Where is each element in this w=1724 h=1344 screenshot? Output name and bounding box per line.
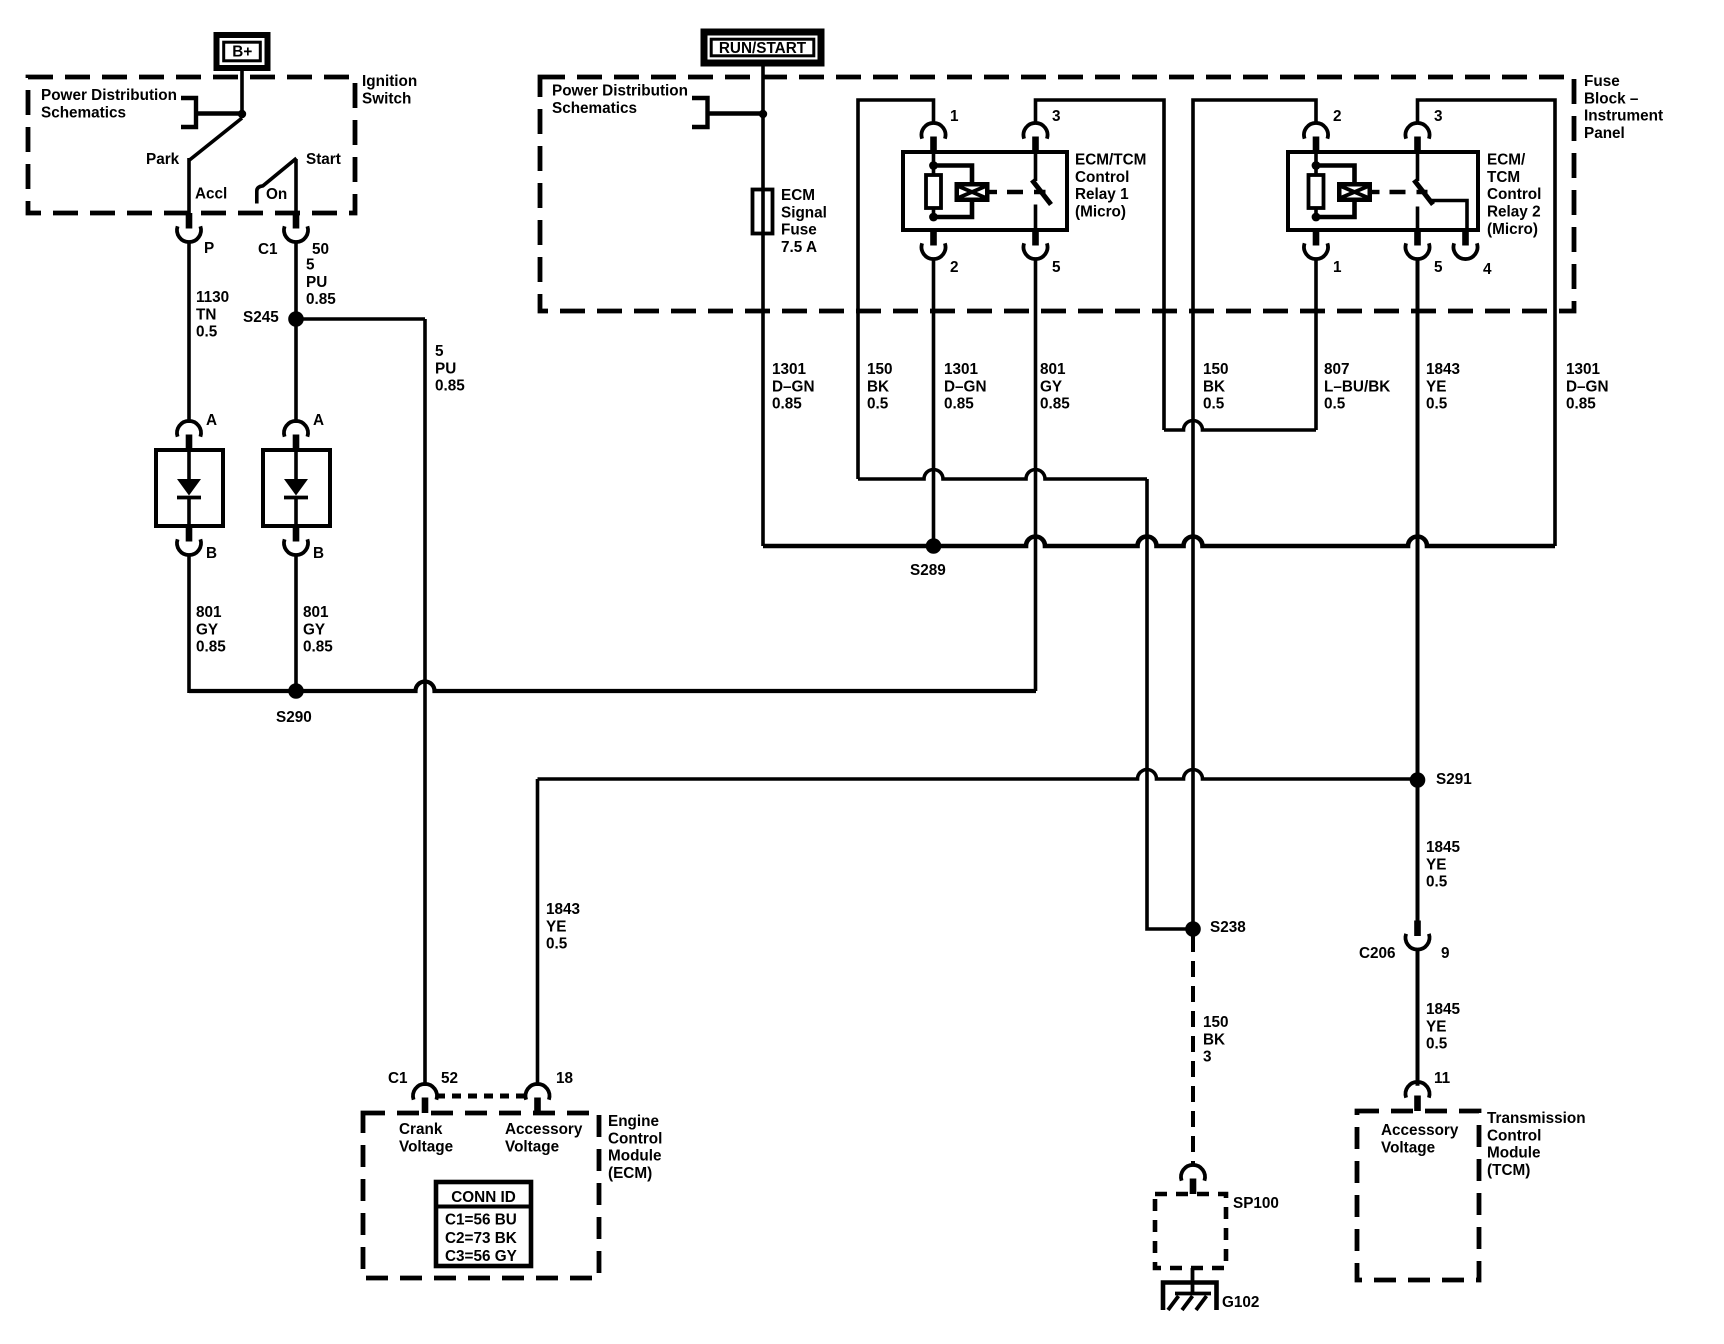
- svg-text:Instrument: Instrument: [1584, 108, 1663, 125]
- svg-text:0.85: 0.85: [303, 639, 333, 656]
- svg-text:Park: Park: [146, 151, 180, 168]
- svg-text:Ignition: Ignition: [362, 73, 417, 90]
- connector ECM C1 pin 52: [422, 1098, 429, 1114]
- svg-text:1845: 1845: [1426, 1001, 1461, 1018]
- svg-text:B: B: [313, 545, 324, 562]
- splice S291: [1410, 772, 1426, 788]
- svg-text:0.85: 0.85: [772, 396, 802, 413]
- connector C206 pin 9: [1414, 921, 1421, 937]
- wire 150 BK (relay2 pin2 to S238): [1193, 100, 1316, 929]
- relay1 pin 5 connector: [1032, 230, 1039, 246]
- ignition switch blade Park: [190, 118, 243, 160]
- svg-text:1845: 1845: [1426, 839, 1461, 856]
- svg-text:S290: S290: [276, 709, 312, 726]
- svg-text:1301: 1301: [944, 361, 979, 378]
- svg-text:2: 2: [950, 259, 959, 276]
- svg-text:SP100: SP100: [1233, 1195, 1279, 1212]
- svg-text:3: 3: [1052, 108, 1061, 125]
- svg-text:Module: Module: [1487, 1145, 1541, 1162]
- RUN/START terminal box: [704, 32, 821, 63]
- splice S290: [288, 683, 304, 699]
- svg-text:Accessory: Accessory: [505, 1121, 583, 1138]
- svg-text:C206: C206: [1359, 945, 1396, 962]
- svg-text:4: 4: [1483, 261, 1492, 278]
- svg-text:(Micro): (Micro): [1075, 204, 1126, 221]
- off-page bracket (ignition): [181, 98, 196, 127]
- relay U1 ECM/TCM Control Relay 1 (Micro): [903, 152, 1067, 230]
- svg-text:3: 3: [1434, 108, 1443, 125]
- svg-text:Voltage: Voltage: [399, 1138, 453, 1155]
- svg-text:ECM/: ECM/: [1487, 152, 1526, 169]
- wire B+ to switch: [240, 68, 244, 118]
- svg-text:Relay 1: Relay 1: [1075, 186, 1129, 203]
- wire RUN/START to fuse: [761, 64, 765, 546]
- svg-text:5: 5: [306, 257, 315, 274]
- svg-text:ECM: ECM: [781, 187, 815, 204]
- wire 801 GY 0.85 (right diode to S290): [294, 555, 298, 691]
- svg-text:Accessory: Accessory: [1381, 1122, 1459, 1139]
- svg-text:801: 801: [303, 604, 329, 621]
- svg-text:B+: B+: [232, 44, 252, 61]
- svg-text:GY: GY: [1040, 378, 1062, 395]
- svg-text:Voltage: Voltage: [505, 1138, 559, 1155]
- relay1 pin 3 connector: [1032, 137, 1039, 153]
- junction dot (B+ feed): [238, 110, 246, 118]
- svg-text:1843: 1843: [1426, 361, 1460, 378]
- svg-text:7.5 A: 7.5 A: [781, 239, 817, 256]
- SP100 dashed box: [1155, 1194, 1226, 1268]
- svg-text:Signal: Signal: [781, 204, 827, 221]
- svg-text:801: 801: [1040, 361, 1066, 378]
- svg-text:Module: Module: [608, 1148, 662, 1165]
- relay2 pin 2 connector: [1313, 137, 1320, 153]
- ignition switch dashed box: [28, 77, 355, 213]
- svg-text:52: 52: [441, 1070, 458, 1087]
- svg-text:Power Distribution: Power Distribution: [552, 83, 688, 100]
- wire 150 BK cross strap: [858, 470, 1147, 479]
- svg-text:GY: GY: [196, 621, 218, 638]
- CONN ID table: [436, 1182, 531, 1266]
- relay2 pin 5 connector: [1414, 230, 1421, 246]
- wire S290 trunk: [189, 682, 1036, 692]
- connector B (right diode): [293, 526, 300, 542]
- svg-text:D–GN: D–GN: [944, 378, 987, 395]
- svg-text:Accl: Accl: [195, 186, 227, 203]
- svg-text:Block –: Block –: [1584, 90, 1639, 107]
- svg-text:0.85: 0.85: [944, 396, 974, 413]
- svg-text:Control: Control: [1487, 1127, 1541, 1144]
- svg-text:150: 150: [1203, 361, 1229, 378]
- relay U2 ECM/TCM Control Relay 2 (Micro): [1288, 152, 1478, 230]
- connector at SP100: [1190, 1179, 1197, 1195]
- svg-text:CONN ID: CONN ID: [451, 1189, 516, 1206]
- relay1 pin 2 connector: [930, 230, 937, 246]
- svg-text:(ECM): (ECM): [608, 1165, 652, 1182]
- svg-text:5: 5: [1434, 259, 1443, 276]
- svg-text:Power Distribution: Power Distribution: [41, 87, 177, 104]
- svg-text:5: 5: [1052, 259, 1061, 276]
- svg-text:3: 3: [1203, 1049, 1212, 1066]
- svg-text:Relay 2: Relay 2: [1487, 204, 1541, 221]
- svg-text:(TCM): (TCM): [1487, 1162, 1530, 1179]
- svg-text:YE: YE: [1426, 856, 1446, 873]
- splice S245: [288, 311, 304, 327]
- connector ECM pin 18: [534, 1098, 541, 1114]
- svg-text:S238: S238: [1210, 919, 1246, 936]
- wire 150 BK to S238: [1147, 479, 1193, 929]
- svg-text:0.5: 0.5: [867, 396, 889, 413]
- svg-text:1843: 1843: [546, 901, 580, 918]
- svg-text:D–GN: D–GN: [772, 378, 815, 395]
- On contact curve: [257, 158, 297, 203]
- svg-text:1130: 1130: [196, 289, 229, 306]
- diode module box (right): [263, 450, 330, 526]
- svg-text:1301: 1301: [1566, 361, 1601, 378]
- svg-text:BK: BK: [1203, 1031, 1225, 1048]
- wire 801 GY (relay1 pin5 to S290): [1034, 259, 1038, 691]
- wire 1301 D-GN (relay1 pin2 to S289): [932, 259, 936, 546]
- svg-text:Control: Control: [1487, 186, 1541, 203]
- svg-text:1301: 1301: [772, 361, 807, 378]
- svg-text:0.85: 0.85: [1566, 396, 1596, 413]
- svg-text:ECM/TCM: ECM/TCM: [1075, 152, 1146, 169]
- svg-text:1: 1: [1333, 259, 1342, 276]
- fuse ECM Signal Fuse 7.5A: [753, 190, 773, 234]
- off-page bracket (fuse block): [692, 98, 708, 127]
- svg-text:TN: TN: [196, 306, 216, 323]
- wire Start contact: [294, 159, 298, 213]
- svg-text:S245: S245: [243, 309, 279, 326]
- battery feed terminal B+ box: [217, 35, 268, 68]
- svg-text:YE: YE: [546, 918, 566, 935]
- svg-text:Schematics: Schematics: [552, 100, 637, 117]
- connector P (ignition park feed): [186, 213, 193, 229]
- connector C1 pin 50: [293, 213, 300, 229]
- svg-text:Control: Control: [608, 1130, 662, 1147]
- svg-text:C1: C1: [258, 241, 278, 258]
- svg-text:GY: GY: [303, 621, 325, 638]
- wire 1843 YE (relay2 pin5 to S291): [1416, 259, 1420, 920]
- svg-text:Crank: Crank: [399, 1121, 443, 1138]
- svg-text:BK: BK: [867, 378, 889, 395]
- svg-text:S291: S291: [1436, 771, 1472, 788]
- svg-text:PU: PU: [435, 360, 456, 377]
- wire 1843 YE to ECM pin 18: [536, 779, 540, 1086]
- svg-text:807: 807: [1324, 361, 1350, 378]
- ground G102: [1191, 1268, 1195, 1294]
- svg-text:0.5: 0.5: [1203, 396, 1225, 413]
- svg-text:Fuse: Fuse: [781, 222, 817, 239]
- svg-text:Engine: Engine: [608, 1113, 659, 1130]
- svg-text:18: 18: [556, 1070, 574, 1087]
- ECM dashed box: [363, 1113, 599, 1278]
- svg-text:D–GN: D–GN: [1566, 378, 1609, 395]
- ECM connector dashed link: [436, 1094, 524, 1099]
- wire 1845 YE (C206 to TCM): [1416, 950, 1420, 1086]
- relay1 pin 1 connector: [930, 137, 937, 153]
- wire 5 PU 0.85 vertical to ECM: [423, 319, 427, 1086]
- svg-text:0.85: 0.85: [435, 378, 465, 395]
- svg-text:0.85: 0.85: [1040, 396, 1070, 413]
- svg-text:1: 1: [950, 108, 959, 125]
- relay2 pin 1 connector: [1313, 230, 1320, 246]
- fuse block dashed box: [540, 77, 1574, 311]
- svg-text:0.5: 0.5: [1324, 396, 1346, 413]
- connector A (right diode): [293, 435, 300, 451]
- svg-text:9: 9: [1441, 945, 1450, 962]
- wire 1130 TN 0.5 (P to diode A): [187, 242, 191, 423]
- svg-text:A: A: [313, 412, 324, 429]
- svg-text:0.5: 0.5: [1426, 874, 1448, 891]
- wire S245 branch to right: [296, 317, 425, 321]
- svg-text:0.85: 0.85: [306, 291, 336, 308]
- wire relay1 pin3 to relay2 pin1 (807 L-BU/BK): [1036, 100, 1165, 430]
- svg-text:0.5: 0.5: [1426, 1036, 1448, 1053]
- svg-text:C1: C1: [388, 1070, 408, 1087]
- svg-text:150: 150: [867, 361, 893, 378]
- svg-text:2: 2: [1333, 108, 1342, 125]
- svg-text:Fuse: Fuse: [1584, 73, 1620, 90]
- svg-text:0.5: 0.5: [196, 324, 218, 341]
- svg-text:TCM: TCM: [1487, 169, 1520, 186]
- wire accessory voltage trunk: [538, 770, 1418, 780]
- svg-text:G102: G102: [1222, 1294, 1259, 1311]
- svg-text:Transmission: Transmission: [1487, 1110, 1586, 1127]
- svg-text:BK: BK: [1203, 378, 1225, 395]
- svg-text:Schematics: Schematics: [41, 104, 126, 121]
- junction dot (run/start feed): [759, 110, 767, 118]
- svg-text:0.85: 0.85: [196, 639, 226, 656]
- svg-text:On: On: [266, 186, 287, 203]
- svg-text:YE: YE: [1426, 1018, 1446, 1035]
- splice S289: [926, 538, 942, 554]
- svg-text:Switch: Switch: [362, 90, 411, 107]
- wire S289 trunk: [763, 537, 1555, 547]
- svg-text:A: A: [206, 412, 217, 429]
- svg-text:RUN/START: RUN/START: [719, 40, 807, 57]
- svg-text:5: 5: [435, 343, 444, 360]
- svg-text:YE: YE: [1426, 378, 1446, 395]
- svg-text:0.5: 0.5: [1426, 396, 1448, 413]
- wire 5 PU 0.85 (50 to S245): [294, 242, 298, 319]
- wire Park-Accl: [187, 158, 191, 213]
- svg-text:11: 11: [1434, 1070, 1451, 1087]
- wire 5 PU 0.85 (S245 to diode A): [294, 319, 298, 423]
- svg-text:150: 150: [1203, 1014, 1229, 1031]
- TCM dashed box: [1357, 1111, 1479, 1280]
- relay2 pin 4 connector: [1462, 230, 1469, 246]
- svg-text:50: 50: [312, 241, 329, 258]
- svg-text:801: 801: [196, 604, 222, 621]
- svg-text:C3=56 GY: C3=56 GY: [445, 1248, 517, 1265]
- svg-text:Voltage: Voltage: [1381, 1139, 1435, 1156]
- svg-text:C2=73 BK: C2=73 BK: [445, 1230, 517, 1247]
- wire 1301 D-GN (relay2 pin3 loop to S289): [1418, 100, 1556, 546]
- relay2 pin 3 connector: [1414, 137, 1421, 153]
- svg-text:0.5: 0.5: [546, 936, 568, 953]
- svg-text:S289: S289: [910, 562, 946, 579]
- splice S238: [1185, 921, 1201, 937]
- connector TCM pin 11: [1414, 1096, 1421, 1112]
- diode module box (left): [156, 450, 223, 526]
- wire 150 BK (relay1 pin1 top loop): [858, 100, 934, 479]
- svg-text:(Micro): (Micro): [1487, 221, 1538, 238]
- svg-text:P: P: [204, 240, 214, 257]
- svg-text:Control: Control: [1075, 169, 1129, 186]
- wire 801 GY 0.85 (left diode to S290): [187, 555, 191, 693]
- svg-text:Panel: Panel: [1584, 125, 1625, 142]
- svg-text:L–BU/BK: L–BU/BK: [1324, 378, 1390, 395]
- connector A (left diode): [186, 435, 193, 451]
- wire 150 BK 3 dashed to SP100: [1191, 936, 1195, 1166]
- svg-text:PU: PU: [306, 274, 327, 291]
- svg-text:B: B: [206, 545, 217, 562]
- connector B (left diode): [186, 526, 193, 542]
- svg-text:C1=56 BU: C1=56 BU: [445, 1212, 517, 1229]
- svg-text:Start: Start: [306, 151, 341, 168]
